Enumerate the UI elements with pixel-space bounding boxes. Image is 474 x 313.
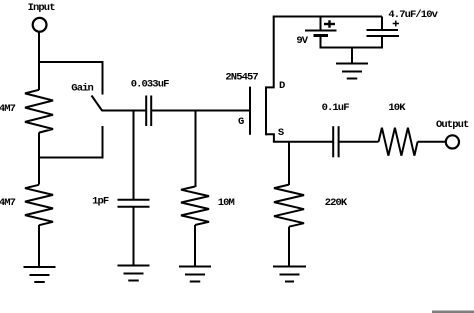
Q1 channel bar: [265, 86, 267, 135]
wire down to R4 220K: [288, 142, 290, 185]
wire down to R3 10M: [195, 111, 197, 188]
switch SW arm: [92, 96, 103, 111]
ground under R3: [179, 266, 211, 268]
C4 lead bottom: [381, 36, 383, 49]
ground supply: [336, 63, 368, 65]
svg-text:Output: Output: [436, 119, 469, 131]
svg-text:0.1uF: 0.1uF: [322, 102, 350, 114]
wire down to supply ground: [351, 48, 353, 65]
ground under R4: [273, 266, 306, 268]
wire top-left horizontal: [38, 61, 103, 63]
resistor R4 220K: [274, 185, 304, 227]
wire gate main (left of C1): [102, 110, 146, 112]
battery B1 positive lead: [320, 17, 322, 30]
battery B1 short plate: [314, 34, 329, 37]
svg-text:9V: 9V: [296, 35, 308, 47]
switch SW Gain top stub: [102, 61, 104, 95]
svg-text:4M7: 4M7: [0, 103, 16, 115]
resistor R3 10M: [181, 187, 209, 226]
C4 lead top: [381, 17, 383, 31]
wire R3 to ground: [194, 225, 196, 267]
wire R2 to ground: [38, 225, 40, 267]
wire top supply rail: [273, 16, 382, 18]
ground under C2: [118, 265, 150, 267]
svg-text:10K: 10K: [388, 102, 406, 114]
svg-text:2N5457: 2N5457: [225, 71, 258, 83]
capacitor C4 4.7uF top plate: [367, 29, 399, 31]
wire drain stub up to rail: [266, 17, 274, 88]
wire C2 to ground: [133, 207, 135, 266]
wire R4 to ground: [288, 227, 290, 267]
svg-text:220K: 220K: [325, 197, 348, 209]
output terminal: [446, 135, 459, 148]
svg-text:4M7: 4M7: [0, 197, 16, 209]
resistor R2 4M7 (lower): [25, 185, 53, 225]
C4 plus sign: [393, 23, 399, 25]
resistor R5 10K: [379, 128, 418, 156]
capacitor C2 1pF: [118, 199, 150, 201]
input terminal: [33, 18, 47, 32]
svg-text:10M: 10M: [218, 197, 235, 209]
wire bottom-left horizontal: [38, 157, 103, 159]
svg-text:Input: Input: [28, 2, 56, 14]
battery B1 negative lead: [320, 37, 322, 49]
bottom-right grey bar: [432, 311, 474, 313]
capacitor C4 bottom plate: [367, 35, 400, 37]
wire source to C3: [273, 141, 333, 143]
svg-text:Gain: Gain: [71, 83, 93, 95]
wire gate main (right of C1): [152, 110, 250, 112]
capacitor C3 0.1uF: [332, 126, 334, 157]
svg-text:0.033uF: 0.033uF: [131, 78, 169, 90]
svg-text:1pF: 1pF: [92, 196, 109, 208]
wire battery to C4 bottom: [320, 47, 383, 49]
battery B1 plus sign: [324, 23, 335, 25]
wire C3 to R5: [339, 141, 378, 143]
capacitor C1 0.033uF: [145, 96, 147, 127]
wire R5 to output: [418, 141, 446, 143]
resistor R1 4M7 (upper): [25, 90, 53, 133]
Q1 gate bar: [249, 87, 251, 135]
wire down to C2 1pF: [133, 111, 135, 201]
battery B1 long plate: [305, 30, 337, 32]
ground under R2: [24, 266, 56, 268]
svg-text:4.7uF/10v: 4.7uF/10v: [388, 9, 438, 21]
svg-text:G: G: [238, 116, 244, 128]
wire source stub down: [266, 134, 274, 141]
switch SW bottom stub: [102, 126, 104, 159]
svg-text:D: D: [279, 80, 285, 92]
svg-text:S: S: [278, 127, 284, 139]
wire input down: [38, 32, 40, 90]
wire R1 bottom to R2 top: [38, 133, 40, 185]
